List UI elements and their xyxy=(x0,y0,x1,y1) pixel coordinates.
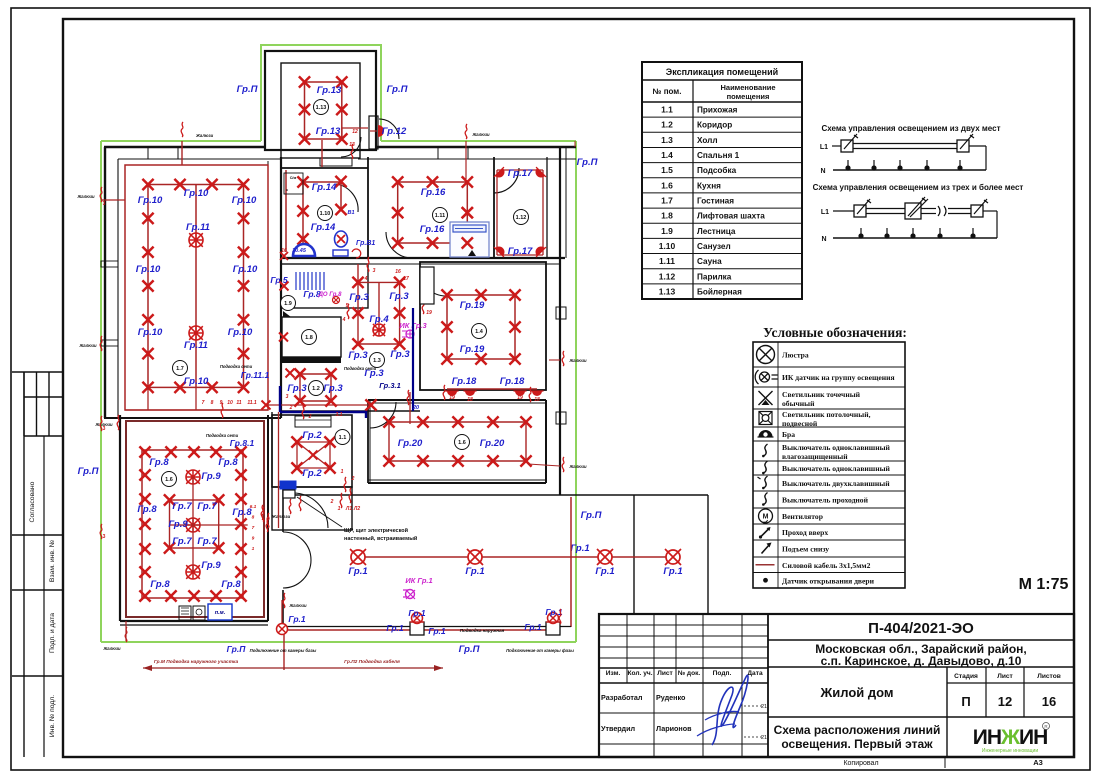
svg-text:3: 3 xyxy=(103,534,106,540)
svg-text:Выключатель проходной: Выключатель проходной xyxy=(782,496,869,505)
svg-text:Холл: Холл xyxy=(697,136,718,145)
svg-text:1.4: 1.4 xyxy=(475,329,484,335)
svg-text:ИК Гр.1: ИК Гр.1 xyxy=(405,576,432,585)
svg-text:2: 2 xyxy=(351,476,355,482)
svg-text:Гр.11: Гр.11 xyxy=(184,340,208,351)
svg-text:Гр.4: Гр.4 xyxy=(369,314,389,325)
svg-text:1.7: 1.7 xyxy=(661,196,673,206)
svg-text:1.6: 1.6 xyxy=(661,180,673,190)
svg-text:Жалюзи: Жалюзи xyxy=(271,514,291,519)
svg-text:11: 11 xyxy=(236,400,241,406)
svg-text:№ пом.: № пом. xyxy=(653,87,682,96)
svg-text:помещения: помещения xyxy=(727,92,770,101)
svg-text:Гр.1: Гр.1 xyxy=(524,622,542,632)
svg-text:Гр.П: Гр.П xyxy=(581,510,602,521)
svg-text:С/м: С/м xyxy=(290,176,297,180)
svg-text:7: 7 xyxy=(202,400,205,406)
svg-text:Гр.14: Гр.14 xyxy=(311,222,336,233)
svg-text:Схема расположения линий: Схема расположения линий xyxy=(774,723,941,737)
svg-text:Гр.1: Гр.1 xyxy=(663,566,682,577)
svg-text:19: 19 xyxy=(517,395,523,401)
svg-text:Гр.14: Гр.14 xyxy=(312,182,337,193)
svg-text:с.п. Каринское, д. Давыдово, д: с.п. Каринское, д. Давыдово, д.10 xyxy=(821,654,1022,668)
svg-text:обычный: обычный xyxy=(782,399,815,408)
svg-text:Гр.13: Гр.13 xyxy=(317,85,342,96)
svg-text:п.м.: п.м. xyxy=(215,610,226,616)
svg-text:Инв. № подл.: Инв. № подл. xyxy=(49,695,56,737)
svg-text:17: 17 xyxy=(403,276,409,282)
svg-text:1.4: 1.4 xyxy=(661,150,673,160)
svg-text:1.9: 1.9 xyxy=(284,301,292,307)
svg-text:21: 21 xyxy=(761,735,767,741)
svg-text:ИК датчик на группу освещения: ИК датчик на группу освещения xyxy=(782,373,895,382)
svg-text:Гр.8: Гр.8 xyxy=(221,579,241,590)
svg-text:Подключение от камеры базы: Подключение от камеры базы xyxy=(250,648,317,653)
svg-text:№ док.: № док. xyxy=(678,670,701,677)
svg-text:16: 16 xyxy=(395,269,401,275)
svg-text:Жалюзи: Жалюзи xyxy=(102,646,121,651)
svg-text:Гр.11: Гр.11 xyxy=(186,222,210,233)
svg-text:Гр.10: Гр.10 xyxy=(184,376,209,387)
svg-text:Гр.П2 Подводка кабеля: Гр.П2 Подводка кабеля xyxy=(344,658,400,665)
svg-text:1.6: 1.6 xyxy=(165,477,173,483)
svg-text:подвесной: подвесной xyxy=(782,419,818,428)
svg-text:N: N xyxy=(821,236,826,243)
svg-text:Коридор: Коридор xyxy=(697,121,732,130)
svg-text:Гр.М Подводка наружного участк: Гр.М Подводка наружного участка xyxy=(154,659,239,665)
svg-text:Гр.10: Гр.10 xyxy=(138,195,163,206)
svg-text:влагозащищенный: влагозащищенный xyxy=(782,452,848,461)
svg-text:Гр.7: Гр.7 xyxy=(197,536,217,547)
svg-text:19: 19 xyxy=(449,395,455,401)
svg-text:Разработал: Разработал xyxy=(601,693,643,702)
svg-text:Гр.7: Гр.7 xyxy=(172,536,192,547)
svg-text:3.1: 3.1 xyxy=(336,412,343,418)
svg-text:Л2: Л2 xyxy=(353,506,360,512)
svg-text:Жалюзи: Жалюзи xyxy=(471,132,490,137)
svg-text:Гр.20: Гр.20 xyxy=(480,438,505,449)
svg-text:1.2: 1.2 xyxy=(312,386,320,392)
svg-text:10: 10 xyxy=(227,400,233,406)
svg-text:1.3: 1.3 xyxy=(661,135,673,145)
svg-text:Вентилятор: Вентилятор xyxy=(782,512,823,521)
svg-text:Люстра: Люстра xyxy=(782,351,809,360)
svg-text:3: 3 xyxy=(286,394,289,400)
svg-text:2: 2 xyxy=(308,414,312,420)
svg-text:1.7: 1.7 xyxy=(176,366,184,372)
svg-text:Жалюзи: Жалюзи xyxy=(78,343,97,348)
svg-text:Выключатель двухклавишный: Выключатель двухклавишный xyxy=(782,479,890,488)
svg-text:Подводка наружная: Подводка наружная xyxy=(460,628,505,633)
svg-text:1.5: 1.5 xyxy=(661,165,673,175)
svg-text:Жалюзи: Жалюзи xyxy=(76,194,95,199)
svg-text:Гр.3: Гр.3 xyxy=(349,292,369,303)
svg-text:2: 2 xyxy=(330,499,334,505)
svg-text:Гр.9: Гр.9 xyxy=(201,471,221,482)
svg-text:Стадия: Стадия xyxy=(954,673,978,680)
svg-text:освещения. Первый этаж: освещения. Первый этаж xyxy=(781,737,933,751)
svg-text:Гр.1: Гр.1 xyxy=(348,566,367,577)
svg-text:Гр.1: Гр.1 xyxy=(386,623,404,633)
svg-text:Гр.П: Гр.П xyxy=(459,644,480,655)
svg-text:16: 16 xyxy=(1042,694,1056,709)
svg-text:Наименование: Наименование xyxy=(720,83,775,92)
svg-text:L1: L1 xyxy=(820,144,828,151)
svg-text:Жилой дом: Жилой дом xyxy=(819,685,893,700)
svg-text:1: 1 xyxy=(338,506,341,512)
svg-text:М 1:75: М 1:75 xyxy=(1019,576,1069,593)
svg-text:Гр.16: Гр.16 xyxy=(421,187,446,198)
svg-text:7: 7 xyxy=(252,525,255,531)
svg-text:1: 1 xyxy=(252,546,255,552)
svg-text:Гр.1: Гр.1 xyxy=(428,626,446,636)
svg-text:1.13: 1.13 xyxy=(659,286,676,296)
svg-text:Гр.7: Гр.7 xyxy=(197,501,217,512)
svg-text:12: 12 xyxy=(352,129,358,135)
svg-text:Датчик открывания двери: Датчик открывания двери xyxy=(782,576,875,585)
svg-text:Гр.17: Гр.17 xyxy=(508,246,533,257)
svg-text:12: 12 xyxy=(998,694,1012,709)
svg-text:Жалюзи: Жалюзи xyxy=(288,603,307,608)
svg-text:Санузел: Санузел xyxy=(697,242,731,251)
svg-text:Светильник точечный: Светильник точечный xyxy=(782,390,861,399)
svg-text:Гр.П: Гр.П xyxy=(227,644,247,654)
svg-text:1.8: 1.8 xyxy=(305,335,313,341)
svg-text:Проход вверх: Проход вверх xyxy=(782,528,828,537)
svg-text:Подводка сети: Подводка сети xyxy=(206,433,239,438)
svg-text:Взам. инв. №: Взам. инв. № xyxy=(49,540,56,582)
svg-text:Гр.8: Гр.8 xyxy=(150,579,170,590)
svg-text:Подсобка: Подсобка xyxy=(697,165,737,175)
svg-text:Экспликация помещений: Экспликация помещений xyxy=(666,67,778,77)
svg-text:1.1: 1.1 xyxy=(661,105,673,115)
svg-text:Гр.П: Гр.П xyxy=(387,84,408,95)
svg-text:1.12: 1.12 xyxy=(659,271,676,281)
svg-text:Подводка сети: Подводка сети xyxy=(220,364,253,369)
svg-text:3: 3 xyxy=(373,268,376,274)
svg-text:Подводка сети: Подводка сети xyxy=(344,366,377,371)
svg-text:Гр.11.1: Гр.11.1 xyxy=(241,370,270,380)
svg-text:Руденко: Руденко xyxy=(656,693,686,702)
svg-text:Гр.20: Гр.20 xyxy=(398,438,423,449)
svg-text:Дата: Дата xyxy=(747,670,763,677)
svg-text:1.9: 1.9 xyxy=(661,226,673,236)
svg-text:8: 8 xyxy=(252,515,255,521)
svg-text:Гр.9: Гр.9 xyxy=(168,519,188,530)
svg-text:21: 21 xyxy=(761,704,767,710)
svg-text:Выключатель одноклавишный: Выключатель одноклавишный xyxy=(782,464,891,473)
svg-text:Гр.10: Гр.10 xyxy=(228,327,253,338)
svg-text:4: 4 xyxy=(364,276,368,282)
svg-text:Подп. и дата: Подп. и дата xyxy=(49,613,56,653)
svg-text:Гр.3: Гр.3 xyxy=(348,350,368,361)
svg-text:Светильник потолочный,: Светильник потолочный, xyxy=(782,410,871,419)
svg-text:Гр.19: Гр.19 xyxy=(460,344,485,355)
svg-text:Гр.П: Гр.П xyxy=(577,157,598,168)
svg-text:Бра: Бра xyxy=(782,430,795,439)
svg-text:Гр.П: Гр.П xyxy=(78,466,99,477)
svg-text:1.10: 1.10 xyxy=(320,211,331,217)
svg-text:Гр.3: Гр.3 xyxy=(323,383,343,394)
svg-text:Гр.2: Гр.2 xyxy=(302,430,322,441)
svg-text:А3: А3 xyxy=(1033,758,1043,767)
svg-text:Гр.3: Гр.3 xyxy=(390,349,410,360)
svg-text:1.3: 1.3 xyxy=(373,358,381,364)
svg-text:Гр.8.1: Гр.8.1 xyxy=(230,438,255,448)
svg-text:1.11: 1.11 xyxy=(659,256,675,266)
svg-text:Прихожая: Прихожая xyxy=(697,106,738,115)
svg-text:Гр.3: Гр.3 xyxy=(389,291,409,302)
svg-text:Гостиная: Гостиная xyxy=(697,197,734,206)
svg-text:1.6: 1.6 xyxy=(458,440,466,446)
svg-text:Л1: Л1 xyxy=(345,506,352,512)
svg-text:Парилка: Парилка xyxy=(697,272,732,281)
svg-text:Кол. уч.: Кол. уч. xyxy=(627,670,652,677)
svg-text:Утвердил: Утвердил xyxy=(601,724,636,733)
svg-text:Бойлерная: Бойлерная xyxy=(697,287,742,296)
svg-text:Жалюзи: Жалюзи xyxy=(568,358,587,363)
svg-text:Гр.10: Гр.10 xyxy=(138,327,163,338)
svg-text:Гр.16: Гр.16 xyxy=(420,224,445,235)
svg-text:1.12: 1.12 xyxy=(516,215,527,221)
svg-text:Подъем снизу: Подъем снизу xyxy=(782,545,829,554)
svg-text:Согласовано: Согласовано xyxy=(29,481,36,522)
svg-text:Гр.13: Гр.13 xyxy=(316,126,341,137)
svg-text:Гр.19: Гр.19 xyxy=(460,300,485,311)
svg-text:Подп.: Подп. xyxy=(713,670,732,677)
svg-text:Гр.8: Гр.8 xyxy=(149,457,169,468)
svg-text:Гр.3.1: Гр.3.1 xyxy=(379,381,401,390)
svg-text:Гр.1: Гр.1 xyxy=(408,608,426,618)
svg-text:Гр.П: Гр.П xyxy=(237,84,258,95)
svg-text:ИНЖИН: ИНЖИН xyxy=(973,726,1048,749)
svg-text:Лист: Лист xyxy=(657,670,673,677)
svg-text:9: 9 xyxy=(252,536,255,542)
svg-text:1.1: 1.1 xyxy=(339,435,347,441)
svg-text:Лист: Лист xyxy=(997,673,1013,680)
svg-text:10.45: 10.45 xyxy=(292,248,307,254)
svg-text:Условные обозначения:: Условные обозначения: xyxy=(763,325,907,340)
svg-text:L1: L1 xyxy=(821,209,829,216)
svg-text:4: 4 xyxy=(342,317,346,323)
svg-text:Инженерные инновации: Инженерные инновации xyxy=(982,748,1038,754)
svg-text:Гр.9: Гр.9 xyxy=(201,560,221,571)
svg-text:Лестница: Лестница xyxy=(697,227,736,236)
svg-text:Гр.8: Гр.8 xyxy=(218,457,238,468)
svg-text:Гр.1: Гр.1 xyxy=(465,566,484,577)
svg-text:1.13: 1.13 xyxy=(316,105,327,111)
svg-text:Гр.В1: Гр.В1 xyxy=(356,240,375,247)
svg-text:Ларионов: Ларионов xyxy=(656,724,692,733)
svg-text:M: M xyxy=(763,514,769,521)
svg-text:Гр.1: Гр.1 xyxy=(595,566,614,577)
svg-text:П-404/2021-ЭО: П-404/2021-ЭО xyxy=(868,620,974,637)
svg-text:Гр.8: Гр.8 xyxy=(137,504,157,515)
svg-text:Гр.12: Гр.12 xyxy=(382,126,407,137)
svg-text:1.8: 1.8 xyxy=(661,211,673,221)
svg-text:Подключение от камеры фазы: Подключение от камеры фазы xyxy=(506,648,574,653)
svg-text:настенный, встраиваемый: настенный, встраиваемый xyxy=(344,535,417,542)
svg-text:ЩР, щит электрической: ЩР, щит электрической xyxy=(344,527,408,534)
svg-text:3: 3 xyxy=(103,426,106,432)
svg-text:Лифтовая шахта: Лифтовая шахта xyxy=(697,212,765,221)
svg-text:Листов: Листов xyxy=(1037,673,1061,680)
svg-text:Гр.10: Гр.10 xyxy=(232,195,257,206)
svg-text:11.1: 11.1 xyxy=(247,400,257,406)
svg-text:Изм.: Изм. xyxy=(606,670,621,677)
svg-text:П: П xyxy=(961,694,970,709)
svg-text:N: N xyxy=(820,168,825,175)
svg-text:Гр.18: Гр.18 xyxy=(500,376,525,387)
svg-text:Гр.10: Гр.10 xyxy=(233,264,258,275)
svg-text:20: 20 xyxy=(412,405,419,411)
svg-text:Гр.18: Гр.18 xyxy=(452,376,477,387)
svg-text:Жалюзи: Жалюзи xyxy=(195,133,214,138)
svg-text:18: 18 xyxy=(534,397,540,403)
svg-text:1.11: 1.11 xyxy=(435,213,445,219)
svg-text:Жалюзи: Жалюзи xyxy=(568,464,587,469)
svg-text:Гр.1: Гр.1 xyxy=(288,614,306,624)
svg-text:Гр.7: Гр.7 xyxy=(172,501,192,512)
svg-text:ДО Гр.8: ДО Гр.8 xyxy=(318,292,343,298)
svg-text:19: 19 xyxy=(426,310,432,316)
svg-text:3: 3 xyxy=(103,201,106,207)
svg-text:Гр.2: Гр.2 xyxy=(302,468,322,479)
svg-text:Схема управления освещением из: Схема управления освещением из трех и бо… xyxy=(813,183,1024,192)
svg-text:Кухня: Кухня xyxy=(697,181,721,190)
svg-text:Гр.3: Гр.3 xyxy=(287,383,307,394)
svg-text:Силовой кабель 3х1,5мм2: Силовой кабель 3х1,5мм2 xyxy=(782,561,871,570)
svg-text:В1: В1 xyxy=(347,210,354,216)
svg-text:Спальня 1: Спальня 1 xyxy=(697,151,740,160)
svg-text:Гр.10: Гр.10 xyxy=(184,188,209,199)
svg-text:Гр.17: Гр.17 xyxy=(508,168,533,179)
svg-text:8: 8 xyxy=(211,400,214,406)
svg-text:1: 1 xyxy=(341,469,344,475)
svg-text:Схема управления освещением из: Схема управления освещением из двух мест xyxy=(821,124,1000,133)
svg-text:Копировал: Копировал xyxy=(843,760,878,767)
svg-text:Выключатель одноклавишный: Выключатель одноклавишный xyxy=(782,443,891,452)
svg-text:2: 2 xyxy=(289,405,293,411)
svg-text:Гр.10: Гр.10 xyxy=(136,264,161,275)
svg-text:Сауна: Сауна xyxy=(697,257,722,266)
svg-text:Гр.1: Гр.1 xyxy=(570,543,589,554)
svg-text:6.1: 6.1 xyxy=(250,504,257,510)
svg-text:1.10: 1.10 xyxy=(659,241,676,251)
svg-text:18: 18 xyxy=(467,397,473,403)
svg-text:1.2: 1.2 xyxy=(661,120,673,130)
